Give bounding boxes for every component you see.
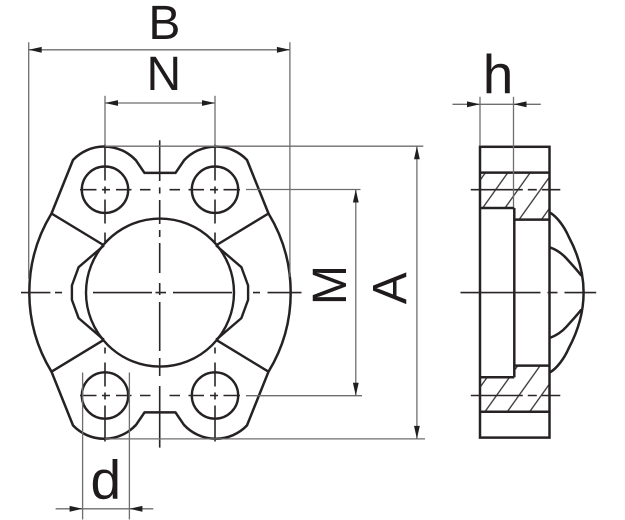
dimension h (453, 97, 541, 207)
spoke lower-right (216, 340, 268, 372)
centerlines side view (461, 190, 597, 396)
bolt hole top-left (82, 167, 128, 213)
side bolt centerline bottom (471, 395, 561, 397)
bolt hole top-right (192, 167, 238, 213)
side bore edge vertical (513, 208, 516, 377)
side step line right-top (514, 218, 549, 221)
svg-text:B: B (148, 0, 180, 50)
dimension N extension right (214, 96, 216, 146)
hatch upper region (480, 173, 550, 220)
bolt hole bottom-left (82, 372, 128, 418)
side step line left-bottom (480, 376, 514, 379)
side inner line top flange (480, 171, 550, 174)
seat bulge outer arc (550, 213, 584, 373)
bolt row horizontal centerline top (80, 189, 240, 191)
main horizontal centerline (21, 292, 302, 294)
dimension A extension bottom (105, 438, 425, 440)
spoke lower-left (52, 340, 104, 372)
dimension B extension right (289, 42, 291, 277)
dimension N line (105, 102, 215, 104)
dimension h line (453, 103, 541, 105)
seat chamfer curve bottom (550, 310, 582, 338)
dimension M extension top (246, 189, 361, 191)
dimension A extension top (105, 145, 423, 147)
dimension N extension left (104, 96, 106, 146)
arrow d right (129, 506, 142, 512)
side body outline (480, 147, 550, 438)
dimension A line (416, 146, 418, 439)
arrow A top (414, 146, 420, 159)
svg-text:A: A (364, 272, 417, 304)
flange outline (29, 147, 290, 439)
hatch lower region (480, 366, 550, 412)
dimension d line (56, 508, 154, 510)
spoke upper-right (216, 214, 269, 246)
side step line right-bottom (514, 364, 549, 367)
side inner line bottom flange (480, 411, 550, 414)
arrow A bottom (414, 426, 420, 439)
arrow M top (353, 190, 359, 203)
central bore (86, 219, 234, 367)
side bolt centerline top (471, 189, 561, 191)
side step line left-top (480, 207, 514, 210)
arrow B right (277, 47, 290, 53)
dimension h extension right (513, 97, 515, 207)
dimension M line (355, 190, 357, 396)
labels front (91, 0, 418, 511)
bolt row horizontal centerline bottom (80, 395, 240, 397)
arrow d left (70, 506, 83, 512)
svg-text:N: N (146, 48, 181, 101)
arrow N right (202, 100, 215, 106)
dimension M extension bottom (246, 395, 362, 397)
svg-text:d: d (91, 449, 122, 511)
arrow h left (467, 101, 480, 107)
seat lens right (216, 245, 248, 339)
side main horizontal centerline (461, 292, 597, 294)
svg-text:M: M (304, 265, 357, 305)
bolt hole bottom-right (192, 372, 238, 418)
seat lens left (72, 245, 104, 339)
arrow B left (29, 47, 42, 53)
dimension d extension right (128, 373, 130, 520)
arrow N left (105, 100, 118, 106)
bolt column centerline bottom-right (214, 348, 216, 442)
dimension B line (29, 49, 290, 51)
main vertical centerline (159, 140, 161, 447)
dimension h extension left (479, 97, 481, 146)
centerlines front view (21, 140, 302, 447)
svg-text:h: h (483, 43, 514, 105)
arrow M bottom (353, 383, 359, 396)
spoke upper-left (52, 214, 105, 246)
dimension B extension left (28, 42, 30, 279)
bolt column centerline bottom-left (104, 348, 106, 442)
bolt column centerline top-left (104, 145, 106, 243)
dimension d extension left (82, 373, 84, 520)
seat chamfer curve top (550, 247, 582, 275)
bolt column centerline top-right (214, 145, 216, 243)
arrow h right (514, 101, 527, 107)
